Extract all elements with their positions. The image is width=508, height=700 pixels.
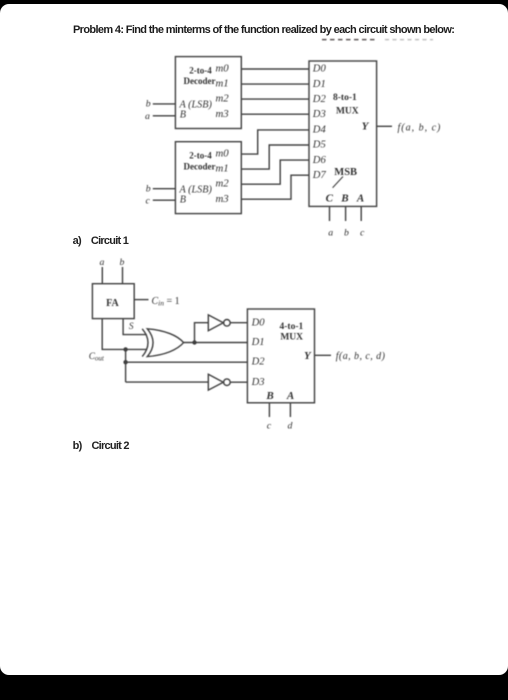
svg-text:a: a — [328, 228, 333, 239]
inverter NOT1 triangle — [208, 315, 223, 331]
svg-text:Cin = 1: Cin = 1 — [152, 296, 180, 308]
wire U1 m1 to D1 — [241, 83, 309, 85]
svg-text:b: b — [344, 228, 349, 239]
svg-text:D2: D2 — [251, 357, 266, 368]
svg-text:D6: D6 — [312, 155, 327, 166]
wire NOT1 to D0 — [230, 322, 247, 324]
svg-text:a: a — [100, 257, 105, 268]
svg-text:f(a, b, c): f(a, b, c) — [398, 122, 442, 133]
inverter NOT1 bubble — [224, 320, 231, 327]
svg-text:C: C — [326, 193, 334, 205]
MSB pointer slash — [333, 177, 343, 188]
wire Cin — [134, 299, 148, 301]
svg-text:D3: D3 — [251, 377, 265, 388]
wire b input U2 — [153, 188, 176, 190]
svg-text:c: c — [146, 195, 151, 206]
wire select B — [345, 206, 347, 221]
svg-text:B: B — [265, 390, 273, 402]
wire a input FA — [101, 267, 103, 284]
wire XOR out up to NOT1 — [195, 323, 209, 343]
wire b input U1 — [153, 103, 176, 105]
wire U1 m0 to D0 — [241, 68, 309, 70]
inverter NOT2 triangle — [208, 374, 223, 390]
inverter NOT2 bubble — [224, 379, 231, 386]
svg-text:D0: D0 — [312, 64, 327, 75]
wire Y output U3 — [377, 125, 392, 127]
decoder U2 box — [175, 142, 241, 214]
svg-text:Y: Y — [304, 350, 312, 362]
svg-text:D0: D0 — [251, 317, 266, 328]
wire U2 m2 to D6 — [241, 160, 309, 184]
svg-text:D1: D1 — [251, 337, 265, 348]
wire c input U2 — [153, 199, 176, 201]
svg-text:m2: m2 — [216, 178, 230, 190]
svg-text:Cout: Cout — [89, 352, 105, 363]
svg-text:Y: Y — [362, 120, 370, 132]
svg-text:D2: D2 — [312, 94, 327, 105]
wire Cout down — [125, 349, 127, 382]
junction Cout-XOR — [123, 347, 127, 351]
wire U1 m2 to D2 — [241, 98, 309, 100]
svg-text:f(a, b, c, d): f(a, b, c, d) — [336, 351, 386, 362]
svg-text:2-to-4: 2-to-4 — [189, 66, 212, 76]
wire Cout output FA — [102, 319, 147, 350]
wire U2 m1 to D5 — [241, 145, 309, 169]
svg-text:MSB: MSB — [334, 167, 357, 178]
wire U2 m3 to D7 — [241, 175, 309, 199]
wire select B U4 — [268, 403, 270, 417]
caption b) Circuit 2 — [73, 440, 129, 452]
svg-text:a: a — [145, 111, 150, 122]
xor gate G1 body — [147, 329, 183, 357]
wire Y output U4 — [315, 354, 332, 356]
full adder FA box — [92, 284, 134, 319]
wire select A U4 — [289, 403, 291, 417]
svg-text:m3: m3 — [216, 193, 230, 205]
wire NOT2 to D3 — [230, 381, 247, 383]
svg-text:m2: m2 — [216, 93, 230, 105]
wire S output FA — [123, 319, 147, 335]
svg-text:c: c — [267, 421, 272, 432]
svg-text:D3: D3 — [312, 109, 326, 120]
junction Cout-D2 — [123, 360, 127, 364]
svg-text:2-to-4: 2-to-4 — [189, 151, 212, 161]
svg-text:4-to-1: 4-to-1 — [280, 322, 304, 332]
caption a) Circuit 1 — [73, 235, 129, 247]
svg-text:b: b — [146, 99, 151, 110]
svg-text:A: A — [286, 390, 294, 402]
wire XOR out to D1 — [183, 342, 247, 344]
wire select A — [360, 206, 362, 221]
wire a input U1 — [153, 115, 176, 117]
svg-text:b: b — [120, 257, 125, 268]
svg-text:S: S — [129, 322, 134, 332]
svg-text:D5: D5 — [312, 140, 326, 151]
title dashed underline — [322, 39, 433, 41]
svg-text:B: B — [180, 195, 186, 206]
svg-text:c: c — [360, 228, 365, 239]
svg-text:m1: m1 — [216, 163, 229, 175]
svg-text:B: B — [180, 109, 186, 120]
svg-text:FA: FA — [106, 298, 119, 309]
svg-text:D4: D4 — [312, 125, 327, 136]
wire Cout to NOT2 — [126, 381, 209, 383]
wire Cout to D2 — [126, 361, 248, 363]
mux U3 box 8-to-1 — [309, 61, 377, 206]
svg-text:D1: D1 — [312, 79, 326, 90]
wire select C — [329, 206, 331, 221]
wire U2 m0 to D4 — [241, 130, 309, 154]
svg-text:A: A — [356, 193, 364, 205]
svg-text:m1: m1 — [216, 78, 229, 90]
svg-text:B: B — [340, 193, 348, 205]
xor gate G1 back arc — [142, 329, 148, 357]
svg-text:b: b — [146, 183, 151, 194]
junction XOR out — [192, 340, 196, 344]
svg-text:Decoder: Decoder — [184, 76, 216, 86]
svg-text:Decoder: Decoder — [184, 161, 216, 171]
svg-text:8-to-1: 8-to-1 — [333, 93, 357, 103]
svg-text:D7: D7 — [312, 170, 327, 181]
svg-text:MUX: MUX — [336, 107, 359, 117]
wire U1 m3 to D3 — [241, 113, 309, 115]
svg-text:d: d — [288, 421, 293, 432]
wire b input FA — [122, 267, 124, 284]
svg-text:MUX: MUX — [280, 333, 303, 343]
svg-text:m0: m0 — [216, 63, 230, 75]
decoder U1 box — [175, 57, 241, 129]
mux U4 box 4-to-1 — [247, 309, 314, 403]
svg-text:m0: m0 — [216, 148, 230, 160]
svg-text:m3: m3 — [216, 108, 230, 120]
